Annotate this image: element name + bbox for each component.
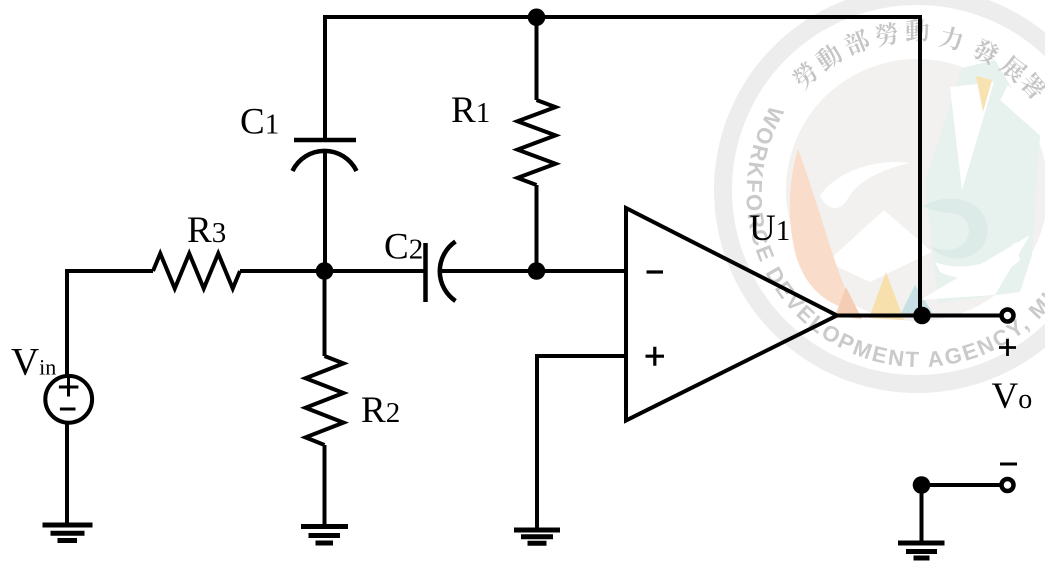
resistor R1 <box>518 100 556 185</box>
wire Vin upper lead <box>65 269 69 376</box>
svg-text:R1: R1 <box>451 90 490 131</box>
wire C1 upper lead <box>323 15 327 140</box>
node ground reference <box>913 476 931 494</box>
wire R1 lower lead <box>535 185 539 271</box>
node top R1 <box>528 8 546 26</box>
wire top horizontal <box>325 15 920 19</box>
watermark char 署 <box>1017 70 1045 102</box>
terminal Vo plus <box>1002 310 1014 322</box>
wire R2 lower lead <box>323 445 327 527</box>
wire R3 to node <box>240 269 424 273</box>
logo white gap wedge <box>950 82 994 190</box>
svg-text:R3: R3 <box>187 210 226 251</box>
logo white slash <box>1000 85 1045 140</box>
svg-text:C2: C2 <box>384 226 423 267</box>
wire top-right vertical <box>918 15 922 316</box>
wire Vin lower lead <box>65 423 69 525</box>
svg-text:R2: R2 <box>361 390 400 431</box>
watermark seal <box>723 0 1045 384</box>
logo teal drop <box>923 199 988 259</box>
logo pale yellow sliver <box>976 76 992 112</box>
source Vin <box>45 376 92 423</box>
op-amp plus sign <box>646 347 665 366</box>
logo yellow wedge <box>869 272 904 320</box>
capacitor C2 <box>426 242 456 303</box>
logo peach petal <box>790 149 856 311</box>
wire ground reference vertical <box>920 485 924 543</box>
op-amp minus sign <box>647 270 664 273</box>
wire R1 upper lead <box>535 17 539 100</box>
ground R2 <box>301 527 348 544</box>
ground Vin <box>43 525 93 541</box>
label minus output <box>1000 463 1017 466</box>
node output <box>913 307 931 325</box>
node B mid <box>528 262 546 280</box>
logo white sweep <box>935 242 1020 279</box>
wire input left <box>67 269 153 273</box>
wire output <box>837 314 1002 318</box>
watermark char 展 <box>997 53 1029 85</box>
terminal Vo minus <box>1002 479 1014 491</box>
wire C2 to op-amp <box>440 269 626 273</box>
logo teal sail <box>925 60 1040 303</box>
watermark char 勞 <box>874 21 900 48</box>
logo white hook <box>820 162 910 208</box>
logo blue accent <box>900 285 935 317</box>
node A mid <box>316 262 334 280</box>
wire plus input <box>537 356 626 530</box>
logo white lower cutout <box>920 235 1030 300</box>
watermark char 部 <box>842 27 872 57</box>
label plus output <box>999 339 1016 356</box>
svg-text:U1: U1 <box>749 208 790 249</box>
svg-text:C1: C1 <box>240 102 279 143</box>
op-amp U1 <box>626 208 837 421</box>
watermark char 勞 <box>789 59 821 91</box>
resistor R2 <box>306 356 344 445</box>
watermark char 動 <box>813 41 845 73</box>
ground output <box>898 543 945 558</box>
inner disc <box>786 59 1045 321</box>
watermark char 動 <box>906 19 929 42</box>
ground plus input <box>514 530 560 543</box>
logo white center triangle <box>827 210 932 282</box>
wire ground reference <box>922 483 1002 487</box>
outer gray ring <box>723 0 1045 384</box>
logo coral wedge <box>835 287 862 319</box>
watermark char 力 <box>938 25 964 52</box>
wire R2 upper lead <box>323 271 327 356</box>
resistor R3 <box>153 254 240 289</box>
capacitor C1 <box>293 140 357 271</box>
watermark char 發 <box>971 36 1002 67</box>
